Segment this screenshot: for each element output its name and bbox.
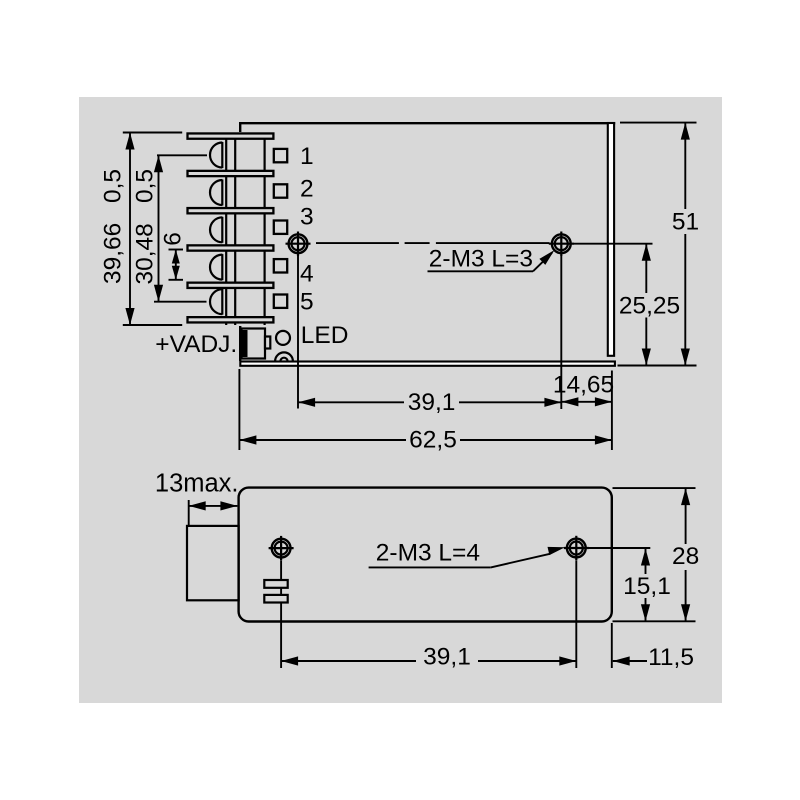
svg-text:2-M3 L=4: 2-M3 L=4 xyxy=(376,539,480,566)
svg-text:+VADJ.: +VADJ. xyxy=(155,331,237,358)
svg-text:15,1: 15,1 xyxy=(623,573,671,600)
svg-text:5: 5 xyxy=(300,289,314,316)
svg-text:11,5: 11,5 xyxy=(648,644,694,671)
svg-text:0,5: 0,5 xyxy=(100,169,127,203)
svg-text:25,25: 25,25 xyxy=(619,293,680,320)
svg-text:2: 2 xyxy=(300,176,314,203)
svg-text:LED: LED xyxy=(301,322,349,349)
svg-text:14,65: 14,65 xyxy=(553,372,614,399)
svg-text:13max.: 13max. xyxy=(155,469,239,497)
svg-text:39,1: 39,1 xyxy=(408,389,456,416)
svg-text:6: 6 xyxy=(160,232,187,246)
svg-text:1: 1 xyxy=(300,143,314,170)
svg-text:0,5: 0,5 xyxy=(132,169,159,203)
svg-text:4: 4 xyxy=(300,261,314,288)
svg-text:2-M3 L=3: 2-M3 L=3 xyxy=(429,245,533,272)
svg-text:62,5: 62,5 xyxy=(409,427,457,454)
svg-text:3: 3 xyxy=(300,204,314,231)
svg-text:28: 28 xyxy=(672,543,699,570)
svg-text:39,1: 39,1 xyxy=(423,644,471,671)
svg-text:39,66: 39,66 xyxy=(100,223,127,284)
svg-text:30,48: 30,48 xyxy=(132,223,159,284)
svg-text:51: 51 xyxy=(672,209,699,236)
